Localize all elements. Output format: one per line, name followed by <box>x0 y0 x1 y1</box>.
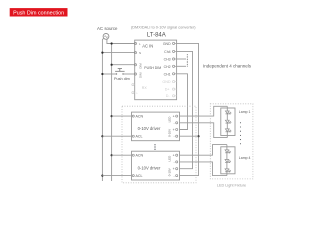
pin LED- of DR2 <box>173 160 177 164</box>
pin CH4 of U1 <box>164 50 175 54</box>
svg-text:Ch4: Ch4 <box>164 50 170 54</box>
svg-text:AC IN: AC IN <box>142 44 153 49</box>
svg-text:PUSH DIM: PUSH DIM <box>144 66 161 70</box>
dashed group box drivers <box>122 106 196 183</box>
wire lamp2 chain inside <box>226 147 228 174</box>
junction dot L-branch to DIM1 <box>111 64 113 66</box>
svg-text:0-10V: 0-10V <box>167 129 171 137</box>
svg-text:0-10V: 0-10V <box>167 168 171 176</box>
svg-text:+: + <box>173 128 175 132</box>
svg-text:CH1: CH1 <box>164 72 171 76</box>
LED D5 <box>225 160 231 163</box>
unused pin of U1 (gray) <box>132 91 139 95</box>
pin L of U1 <box>134 42 141 46</box>
svg-text:0-10V driver: 0-10V driver <box>138 165 161 170</box>
junction dot L-branch top <box>111 42 113 44</box>
pin ACL of DR1 <box>132 135 142 139</box>
pin ACN of DR1 <box>132 115 143 119</box>
svg-text:N: N <box>139 51 141 55</box>
wire driver1 LED+ to lamp1 <box>180 106 228 116</box>
svg-text:AC source: AC source <box>97 26 118 31</box>
svg-text:D-: D- <box>166 94 171 98</box>
LED D2 <box>225 120 231 123</box>
title banner "Push Dim connection" <box>10 8 68 16</box>
wire GND net <box>177 43 199 175</box>
pin 0-10V- of DR2 <box>173 174 177 178</box>
svg-text:ACN: ACN <box>136 115 144 119</box>
pin CH2 of U1 <box>164 65 175 69</box>
wire lamp1 chain inside <box>226 108 228 136</box>
pin 0-10V- of DR1 <box>173 135 177 139</box>
svg-text:Lamp 1: Lamp 1 <box>239 110 251 114</box>
svg-text:GND: GND <box>163 42 171 46</box>
ellipsis lamps <box>240 122 241 144</box>
wire CH3 stub <box>177 58 186 60</box>
junction dot N-branch to driver2 ACL <box>101 175 103 177</box>
svg-text:Push Dim connection: Push Dim connection <box>13 10 64 16</box>
pin DIM1 of U1 <box>134 63 142 69</box>
svg-text:+: + <box>173 115 175 119</box>
unused pin of U1 (gray) <box>132 84 135 86</box>
svg-text:-: - <box>173 160 174 164</box>
svg-text:DIM: DIM <box>138 72 142 78</box>
push button switch S1 <box>115 69 125 75</box>
pin LED+ of DR1 <box>173 115 178 119</box>
LED D4 <box>225 150 231 153</box>
svg-text:ACL: ACL <box>136 135 143 139</box>
pin D+ of U1 (inactive) <box>165 88 175 92</box>
pin LED- of DR1 <box>173 121 177 125</box>
wire lamp1 LED chain <box>226 106 228 137</box>
driver DR1 box <box>132 112 180 141</box>
wire driver2 ACN <box>112 154 132 156</box>
wire driver2 LED- to lamp2 <box>180 162 227 176</box>
pin LED+ of DR2 <box>173 154 178 158</box>
pin GND2 of U1 (inactive) <box>162 80 174 84</box>
wire N to push switch <box>102 73 116 75</box>
wire L net vertical <box>107 38 112 181</box>
svg-text:GND: GND <box>162 80 171 84</box>
svg-text:+: + <box>173 154 175 158</box>
LED D6 <box>225 169 231 172</box>
ellipsis channels <box>187 54 188 67</box>
wire driver2 LED+ to lamp2 <box>180 145 227 156</box>
wire driver1 ACN <box>112 115 132 117</box>
junction dot N-branch to driver1 ACL <box>101 135 103 137</box>
pin GND of U1 <box>163 42 175 46</box>
svg-text:DIM: DIM <box>138 63 142 69</box>
lamp LP2 box <box>221 147 235 174</box>
driver DR2 box <box>132 151 180 180</box>
svg-text:LED: LED <box>167 155 171 162</box>
pin DIM2 of U1 <box>134 72 142 78</box>
ellipsis drivers <box>154 144 155 150</box>
svg-text:-: - <box>173 121 174 125</box>
LED D3 <box>225 129 231 132</box>
junction dot GND to driver1 0-10V- <box>197 135 199 137</box>
svg-text:+: + <box>173 167 175 171</box>
svg-text:ACL: ACL <box>136 174 143 178</box>
pin 0-10V+ of DR1 <box>173 128 178 132</box>
svg-text:L: L <box>139 42 141 46</box>
svg-text:-: - <box>173 174 174 178</box>
pin ACN of DR2 <box>132 154 143 158</box>
svg-text:-: - <box>173 135 174 139</box>
pin 0-10V+ of DR2 <box>173 167 178 171</box>
svg-text:D+: D+ <box>165 88 170 92</box>
pin ACL of DR2 <box>132 174 142 178</box>
svg-text:Push dim: Push dim <box>114 77 130 81</box>
junction dot N-branch to switch <box>101 73 103 75</box>
AC source symbol G1 <box>103 34 109 40</box>
LED D1 <box>225 111 231 114</box>
pin CH1 of U1 <box>164 72 175 76</box>
svg-text:0-10V driver: 0-10V driver <box>138 126 161 131</box>
wire N net vertical <box>102 38 103 181</box>
pin stubs U1 right <box>175 43 177 95</box>
pin N of U1 <box>134 51 141 55</box>
svg-text:LT-84A: LT-84A <box>147 32 166 38</box>
svg-text:LED Light Fixture: LED Light Fixture <box>217 183 246 187</box>
wire CH1 net <box>177 74 188 130</box>
wire N to pin N <box>102 52 135 54</box>
wire CH2 stub <box>177 65 186 67</box>
svg-text:Lamp 4: Lamp 4 <box>239 156 251 160</box>
svg-text:⊥: ⊥ <box>136 91 139 95</box>
lamp LP1 box <box>221 108 235 136</box>
svg-text:(DMX/DALI to 0-10V signal conv: (DMX/DALI to 0-10V signal converter) <box>131 26 196 30</box>
wire driver1 0-10V- to GND net <box>180 135 199 137</box>
junction dot L-branch to driver2 ACN <box>111 154 113 156</box>
wire driver1 LED- to lamp1 <box>180 123 228 138</box>
junction dot N-branch to pin N <box>101 52 103 54</box>
svg-text:ACN: ACN <box>136 154 144 158</box>
svg-text:CH2: CH2 <box>164 65 171 69</box>
svg-text:CH3: CH3 <box>164 58 171 62</box>
svg-text:RX: RX <box>142 86 148 90</box>
wire L to DIM1 pin <box>112 64 136 66</box>
converter U1 LT-84A box <box>135 40 177 100</box>
wire L to pin L <box>112 43 136 45</box>
junction dot L-branch to driver1 ACN <box>111 115 113 117</box>
wire driver1 ACL <box>102 135 131 137</box>
svg-text:Independent 4 channels: Independent 4 channels <box>203 63 252 68</box>
wire lamp2 LED chain <box>226 145 228 176</box>
wire CH4 net <box>177 51 193 168</box>
wire push switch to DIM2 pin <box>123 73 135 75</box>
svg-text:LED: LED <box>167 116 171 123</box>
wire driver2 ACL <box>102 175 131 177</box>
dashed box LED Light Fixture <box>210 104 253 179</box>
pin D- of U1 (inactive) <box>166 94 175 98</box>
pin CH3 of U1 <box>164 58 175 62</box>
